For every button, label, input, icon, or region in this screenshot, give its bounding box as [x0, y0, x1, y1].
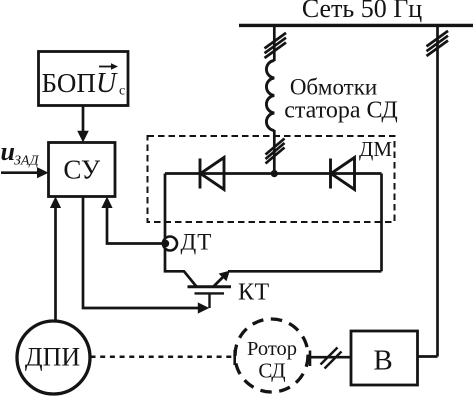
bus: mains line — [239, 24, 473, 27]
svg-text:В: В — [373, 345, 392, 377]
wire+arrow: БОП to СУ — [82, 106, 85, 137]
wire: loop left vertical (top part) — [164, 174, 167, 239]
svg-text:с: с — [119, 84, 125, 99]
shaft double slash — [321, 348, 342, 369]
shaft coupling tick (right of rotor) — [309, 351, 312, 367]
svg-text:ЗАД: ЗАД — [14, 154, 40, 169]
vector arrow over U — [99, 66, 114, 68]
wire+arrow: u_зад input — [1, 171, 40, 174]
svg-text:Сеть 50 Гц: Сеть 50 Гц — [302, 0, 422, 23]
block В (exciter) — [351, 331, 418, 385]
svg-text:СУ: СУ — [63, 155, 101, 185]
diode VD2 (right) — [331, 158, 355, 190]
svg-text:ДМ: ДМ — [359, 137, 392, 161]
node: ДТ tap dot — [161, 240, 169, 248]
shaft coupling tick (left of rotor) — [233, 350, 236, 365]
dashed box: diode module ДМ — [148, 136, 395, 222]
svg-text:Обмотки: Обмотки — [290, 75, 377, 100]
node: junction dot — [271, 170, 278, 177]
svg-text:КТ: КТ — [238, 280, 270, 306]
wire: loop right vertical — [380, 174, 383, 272]
svg-text:БОП: БОП — [42, 68, 96, 98]
wire: СУ to transistor gate — [83, 197, 198, 309]
diode VD1 (left) — [200, 158, 224, 190]
wire+arrow: ДТ feedback to СУ — [107, 203, 162, 244]
svg-text:U: U — [96, 68, 118, 99]
block БОП — [39, 52, 129, 106]
wire: coil to diode node — [273, 130, 276, 174]
transistor emitter arrowhead — [219, 271, 230, 282]
wire: bus to stator winding — [273, 25, 276, 61]
three-phase slash mark (top left drop) — [265, 33, 287, 58]
machine ДПИ (position sensor) — [17, 321, 90, 394]
wire: В to right vertical — [418, 355, 438, 358]
wire+arrow: ДПИ to СУ — [54, 203, 57, 321]
svg-text:ДТ: ДТ — [181, 230, 213, 255]
wire: ДТ to transistor collector — [165, 249, 197, 287]
inductor: stator windings coil — [266, 61, 274, 131]
wire: emitter line to loop right — [228, 270, 382, 273]
wire: right vertical to bus — [436, 25, 439, 357]
svg-text:статора СД: статора СД — [284, 98, 397, 124]
three-phase slash mark (below coil) — [266, 139, 285, 164]
svg-text:ДПИ: ДПИ — [25, 343, 81, 372]
current sensor ДТ (circle on wire) — [163, 237, 177, 251]
transistor КТ (IGBT switch) — [188, 273, 232, 308]
three-phase slash mark (right drop) — [427, 31, 449, 56]
shaft: rotor to B — [310, 356, 351, 359]
block СУ — [49, 143, 116, 197]
svg-text:и: и — [1, 137, 15, 166]
shaft: dashed line ДПИ to rotor — [91, 356, 232, 359]
svg-text:СД: СД — [258, 359, 285, 383]
svg-text:Ротор: Ротор — [247, 338, 297, 360]
wire: loop top horizontal — [165, 172, 382, 175]
rotor СД (dashed circle) — [235, 319, 308, 392]
